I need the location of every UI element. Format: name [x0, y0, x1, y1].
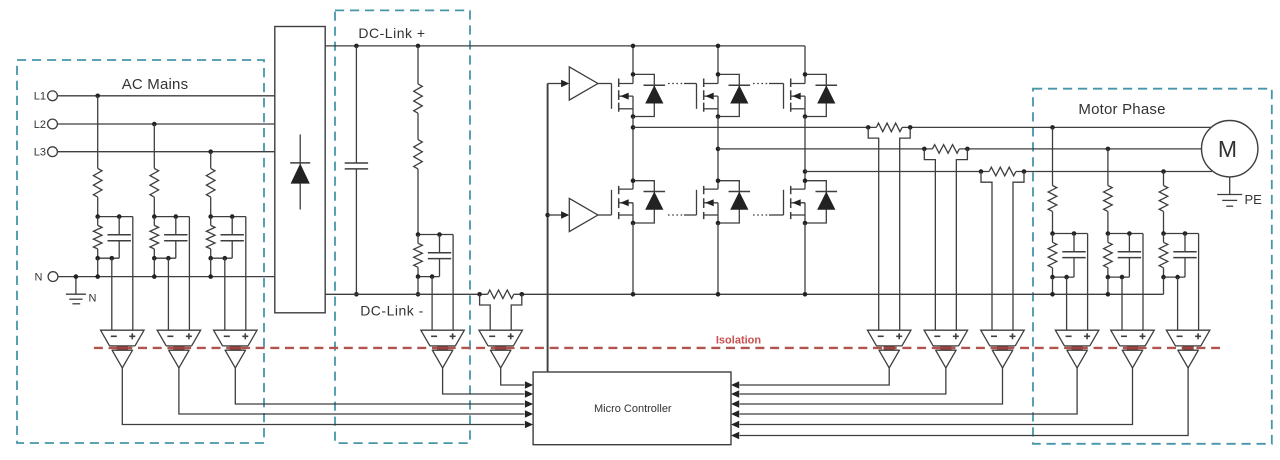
motor M1	[1202, 121, 1258, 177]
junction bottom node motor A	[1050, 275, 1069, 280]
node Q5 source	[716, 221, 721, 226]
junction leg1 at DC- rail	[631, 292, 636, 297]
diode D-Q1 (body)	[633, 74, 665, 116]
micro controller U12	[533, 372, 731, 445]
wire driver U14 output	[598, 214, 612, 216]
wire PWM to top driver	[548, 80, 570, 88]
wire DC shunt sense minus	[480, 294, 491, 330]
junction top node DC	[416, 232, 442, 237]
junction motor A at rail	[1050, 292, 1055, 297]
node Q1 drain	[631, 72, 636, 77]
wire motor B amp plus input	[1142, 234, 1144, 331]
resistor R12 (phase B shunt)	[932, 145, 959, 154]
wire shunt A sense minus	[868, 127, 879, 330]
resistor R14 (motor A series)	[1048, 186, 1057, 212]
transistor Q2 (high side)	[697, 74, 719, 116]
wire L2 amp plus input	[188, 217, 190, 331]
junction N-ground	[74, 274, 79, 279]
wire U5 output to MCU	[501, 368, 533, 389]
wire top node bar DC	[418, 234, 453, 236]
wire DC divider to rail	[417, 277, 419, 295]
junction leg1 at DC+ rail	[631, 44, 636, 49]
node Q2 source	[716, 114, 721, 119]
transistor Q1 (high side)	[612, 74, 634, 116]
op-amp U4 (DC-link V iso amp)	[421, 330, 465, 368]
wire DC shunt sense plus	[511, 294, 522, 330]
capacitor C1 (L1) L1	[108, 217, 131, 259]
terminal L1	[34, 91, 58, 103]
wire L2 line	[57, 123, 274, 125]
diode D-Q5 (body)	[718, 181, 750, 223]
wire motor A mid	[1052, 211, 1054, 233]
wire phase B left	[718, 148, 932, 150]
wire phase C right	[1016, 171, 1212, 173]
wire bottom node bar motor A	[1053, 276, 1075, 278]
wire motor to PE	[1229, 177, 1231, 195]
op-amp U5 (DC-link I iso amp)	[479, 330, 523, 368]
label Motor Phase	[1078, 101, 1165, 118]
node phase B	[716, 147, 721, 152]
wire L1 amp plus input	[132, 217, 134, 331]
resistor R3 (L2 series)	[150, 168, 159, 197]
wire DC-Link+ rail	[325, 45, 805, 47]
wire L1 line	[57, 95, 274, 97]
rectifier bridge block	[275, 27, 325, 313]
resistor R1 (L1 series)	[93, 168, 102, 197]
wire U6 output to MCU	[731, 368, 889, 389]
wire phase B right	[959, 148, 1201, 150]
svg-text:N: N	[89, 293, 97, 305]
wire top node bar L3	[211, 216, 246, 218]
wire motor B drop	[1107, 149, 1109, 186]
wire N line	[58, 276, 275, 278]
resistor R9 (DC sense) DC	[414, 235, 423, 277]
wire motor B amp minus input	[1121, 277, 1123, 330]
resistor R17 (motor B shunt) motor B	[1104, 234, 1113, 278]
junction bottom node motor B	[1106, 275, 1125, 280]
wire L3 monitor drop	[210, 152, 212, 169]
wire bottom node bar L2	[154, 257, 176, 259]
wire shunt B sense minus	[924, 149, 935, 330]
wire leg2 drain to rail	[717, 46, 719, 75]
node Q4 source	[631, 221, 636, 226]
diode D-Q2 (body)	[718, 74, 750, 116]
wire U8 output to MCU	[731, 368, 1003, 408]
wire shunt C sense minus	[981, 172, 992, 331]
capacitor C6 (motor A) motor A	[1062, 234, 1085, 278]
junction L1 tap	[95, 94, 100, 99]
wire L2 monitor drop	[153, 124, 155, 168]
node Q6 drain	[803, 178, 808, 183]
junction bottom node L3	[208, 256, 227, 261]
resistor R10 (DC shunt)	[488, 290, 514, 299]
transistor Q6 (low side)	[784, 181, 806, 223]
wire bottom node bar L1	[98, 257, 120, 259]
capacitor C2 (L2) L2	[164, 217, 187, 259]
junction top node motor C	[1161, 231, 1187, 236]
wire L2 amp minus input	[167, 258, 169, 330]
gate driver U14 (low side)	[569, 198, 598, 231]
wire DC divider mid	[417, 113, 419, 139]
terminal L3	[34, 147, 58, 159]
junction leg2 at DC+ rail	[716, 44, 721, 49]
AC Mains section boundary (dashed)	[17, 60, 264, 443]
wire L1 divider mid	[97, 197, 99, 217]
capacitor C7 (motor B) motor B	[1118, 234, 1141, 278]
wire leg1 drain to rail	[632, 46, 634, 75]
junction L3 at N	[208, 274, 213, 279]
wire L1 amp minus input	[111, 258, 113, 330]
capacitor C8 (motor C) motor C	[1173, 234, 1196, 278]
resistor R15 (motor A shunt) motor A	[1048, 234, 1057, 278]
wire leg1 phase link	[632, 117, 634, 181]
wire bottom node bar DC	[418, 276, 440, 278]
wire motor C amp minus input	[1177, 277, 1179, 330]
diode D1 (rectifier symbol)	[290, 134, 310, 209]
wire top node bar motor C	[1164, 233, 1199, 235]
op-amp U6 (phase A I iso amp)	[867, 330, 911, 368]
wire L3 to N	[210, 258, 212, 276]
node phase C	[803, 169, 808, 174]
junction top node motor A	[1050, 231, 1076, 236]
resistor R4 (L2 shunt) L2	[150, 217, 159, 259]
wire U10 output to MCU	[731, 368, 1133, 428]
wire motor C mid	[1163, 211, 1165, 233]
op-amp U3 (L3 iso amp)	[214, 330, 257, 368]
wire driver U13 output	[598, 83, 612, 85]
wire shunt A sense plus	[900, 127, 911, 330]
capacitor C5 (DC sense) DC	[428, 235, 451, 277]
resistor R2 (L1 shunt) L1	[93, 217, 102, 259]
wire L1 monitor drop	[97, 96, 99, 169]
svg-text:L3: L3	[34, 147, 46, 159]
junction motor A tap	[1050, 125, 1055, 130]
wire bottom node bar motor B	[1108, 276, 1130, 278]
resistor R13 (phase C shunt)	[989, 167, 1016, 176]
junction leg2 at DC- rail	[716, 292, 721, 297]
junction top node L3	[208, 214, 234, 219]
svg-text:Isolation: Isolation	[716, 335, 762, 347]
junction bottom node motor C	[1161, 275, 1180, 280]
node phase A	[631, 125, 636, 130]
transistor Q5 (low side)	[697, 181, 719, 223]
wire shunt B sense plus	[956, 149, 967, 330]
label Isolation	[716, 335, 762, 347]
junction shunt C right	[1022, 169, 1027, 174]
resistor R19 (motor C shunt) motor C	[1159, 234, 1168, 278]
wire L3 amp plus input	[245, 217, 247, 331]
resistor R6 (L3 shunt) L3	[206, 217, 215, 259]
wire motor C amp plus input	[1198, 234, 1200, 331]
wire L3 divider mid	[210, 197, 212, 217]
wire L2 divider mid	[153, 197, 155, 217]
capacitor C4 (DC bus)	[345, 46, 368, 294]
node Q6 source	[803, 221, 808, 226]
diode D-Q4 (body)	[633, 181, 665, 223]
junction L2 tap	[152, 122, 157, 127]
wire top node bar L1	[98, 216, 133, 218]
node Q3 drain	[803, 72, 808, 77]
wire leg3 drain to rail	[804, 46, 806, 75]
svg-text:L1: L1	[34, 91, 46, 103]
op-amp U8 (phase C I iso amp)	[981, 330, 1025, 368]
op-amp U7 (phase B I iso amp)	[924, 330, 968, 368]
wire gate link top 2 (dotted)	[753, 83, 784, 85]
isolation barrier marks in amps	[117, 346, 1194, 349]
wire phase A left	[633, 126, 876, 128]
junction top node L1	[95, 214, 121, 219]
wire motor A amp minus input	[1066, 277, 1068, 330]
DC-Link section boundary (dashed)	[335, 10, 470, 443]
svg-text:PE: PE	[1245, 192, 1263, 207]
wire motor C drop	[1163, 172, 1165, 186]
svg-text:Motor Phase: Motor Phase	[1078, 101, 1165, 118]
isolation barrier line (red dashed)	[94, 347, 1220, 349]
junction DC shunt left	[477, 292, 482, 297]
wire top node bar motor B	[1108, 233, 1143, 235]
label AC Mains	[122, 76, 189, 93]
svg-text:M: M	[1218, 136, 1237, 162]
node Q2 drain	[716, 72, 721, 77]
wire bottom node bar motor C	[1164, 276, 1186, 278]
junction DC bus cap +	[354, 44, 359, 49]
wire PWM feed vertical	[547, 84, 549, 373]
svg-text:AC Mains: AC Mains	[122, 76, 189, 93]
wire PWM to bottom driver	[548, 211, 570, 219]
op-amp U2 (L2 iso amp)	[157, 330, 201, 368]
op-amp U10 (motor B iso amp)	[1111, 330, 1155, 368]
wire leg3 phase link	[804, 117, 806, 181]
wire top node bar L2	[154, 216, 189, 218]
wire leg2 source to rail	[717, 223, 719, 294]
transistor Q4 (low side)	[612, 181, 634, 223]
junction DC divider +	[416, 44, 421, 49]
wire phase A right	[902, 126, 1211, 128]
junction DC shunt right	[520, 292, 525, 297]
terminal L2	[34, 119, 58, 131]
junction bottom node L1	[95, 256, 114, 261]
resistor R18 (motor C series)	[1159, 186, 1168, 212]
junction PWM branch	[545, 213, 550, 218]
junction shunt B right	[965, 147, 970, 152]
junction DC divider -	[416, 292, 421, 297]
wire phase C left	[805, 171, 989, 173]
wire shunt C sense plus	[1013, 172, 1024, 331]
op-amp U1 (L1 iso amp)	[101, 330, 145, 368]
junction shunt A right	[908, 125, 913, 130]
wire motor A amp plus input	[1087, 234, 1089, 331]
wire L2 to N	[153, 258, 155, 276]
junction leg3 at DC- rail	[803, 292, 808, 297]
terminal N	[35, 271, 58, 283]
junction DC bus cap -	[354, 292, 359, 297]
node Q4 drain	[631, 178, 636, 183]
junction motor B tap	[1106, 147, 1111, 152]
junction top node L2	[152, 214, 178, 219]
ground PE (earth symbol)	[1217, 192, 1262, 207]
node Q1 source	[631, 114, 636, 119]
wire top node bar motor A	[1053, 233, 1088, 235]
wire gate link top 1 (dotted)	[668, 83, 697, 85]
node Q5 drain	[716, 178, 721, 183]
junction L2 at N	[152, 274, 157, 279]
wire DC amp plus input	[452, 235, 454, 331]
wire U4 output to MCU	[443, 368, 533, 398]
junction shunt A left	[866, 125, 871, 130]
resistor R11 (phase A shunt)	[876, 123, 902, 132]
junction shunt C left	[979, 169, 984, 174]
resistor R7 (DC divider upper)	[414, 46, 423, 113]
resistor R8 (DC divider lower)	[414, 140, 423, 235]
wire U2 output to MCU	[179, 368, 533, 418]
svg-text:Micro Controller: Micro Controller	[594, 403, 672, 415]
capacitor C3 (L3) L3	[221, 217, 244, 259]
junction motor B at rail	[1106, 292, 1111, 297]
wire leg2 phase link	[717, 117, 719, 181]
node Q3 source	[803, 114, 808, 119]
label DC-Link -	[360, 303, 424, 319]
gate driver U13 (high side)	[569, 67, 598, 100]
junction motor C tap	[1161, 169, 1166, 174]
wire motor B to rail	[1107, 277, 1109, 294]
Motor Phase section boundary (dashed)	[1033, 89, 1272, 444]
junction bottom node DC	[416, 274, 435, 279]
diode D-Q6 (body)	[805, 181, 837, 223]
label DC-Link +	[358, 25, 425, 41]
svg-text:L2: L2	[34, 119, 46, 131]
resistor R16 (motor B series)	[1104, 186, 1113, 212]
wire DC amp minus input	[431, 277, 433, 331]
wire motor A to rail	[1052, 277, 1054, 294]
svg-text:DC-Link +: DC-Link +	[358, 25, 425, 41]
wire L1 to N	[97, 258, 99, 276]
transistor Q3 (high side)	[784, 74, 806, 116]
junction bottom node L2	[152, 256, 171, 261]
wire motor A drop	[1052, 127, 1054, 185]
wire U3 output to MCU	[235, 368, 533, 408]
wire motor C to rail	[1163, 277, 1165, 294]
wire leg1 source to rail	[632, 223, 634, 294]
wire DC-Link- rail left	[325, 293, 487, 295]
junction top node motor B	[1106, 231, 1132, 236]
wire bottom node bar L3	[211, 257, 233, 259]
diode D-Q3 (body)	[805, 74, 837, 116]
wire L3 amp minus input	[224, 258, 226, 330]
wire DC-Link- rail right	[514, 293, 1164, 295]
junction L1 at N	[95, 274, 100, 279]
wire leg3 source to rail	[804, 223, 806, 294]
wire U1 output to MCU	[122, 368, 533, 428]
wire U7 output to MCU	[731, 368, 946, 398]
junction shunt B left	[922, 147, 927, 152]
op-amp U11 (motor C iso amp)	[1166, 330, 1210, 368]
svg-text:N: N	[35, 271, 43, 283]
svg-text:DC-Link -: DC-Link -	[360, 303, 424, 319]
wire gate link bottom 2 (dotted)	[753, 214, 784, 216]
ground N (earth symbol)	[66, 277, 97, 305]
resistor R5 (L3 series)	[206, 168, 215, 197]
op-amp U9 (motor A iso amp)	[1055, 330, 1099, 368]
wire U11 output to MCU	[731, 368, 1188, 439]
wire L3 line	[57, 151, 274, 153]
wire motor B mid	[1107, 211, 1109, 233]
wire gate link bottom 1 (dotted)	[668, 214, 697, 216]
junction L3 tap	[208, 149, 213, 154]
wire U9 output to MCU	[731, 368, 1077, 418]
